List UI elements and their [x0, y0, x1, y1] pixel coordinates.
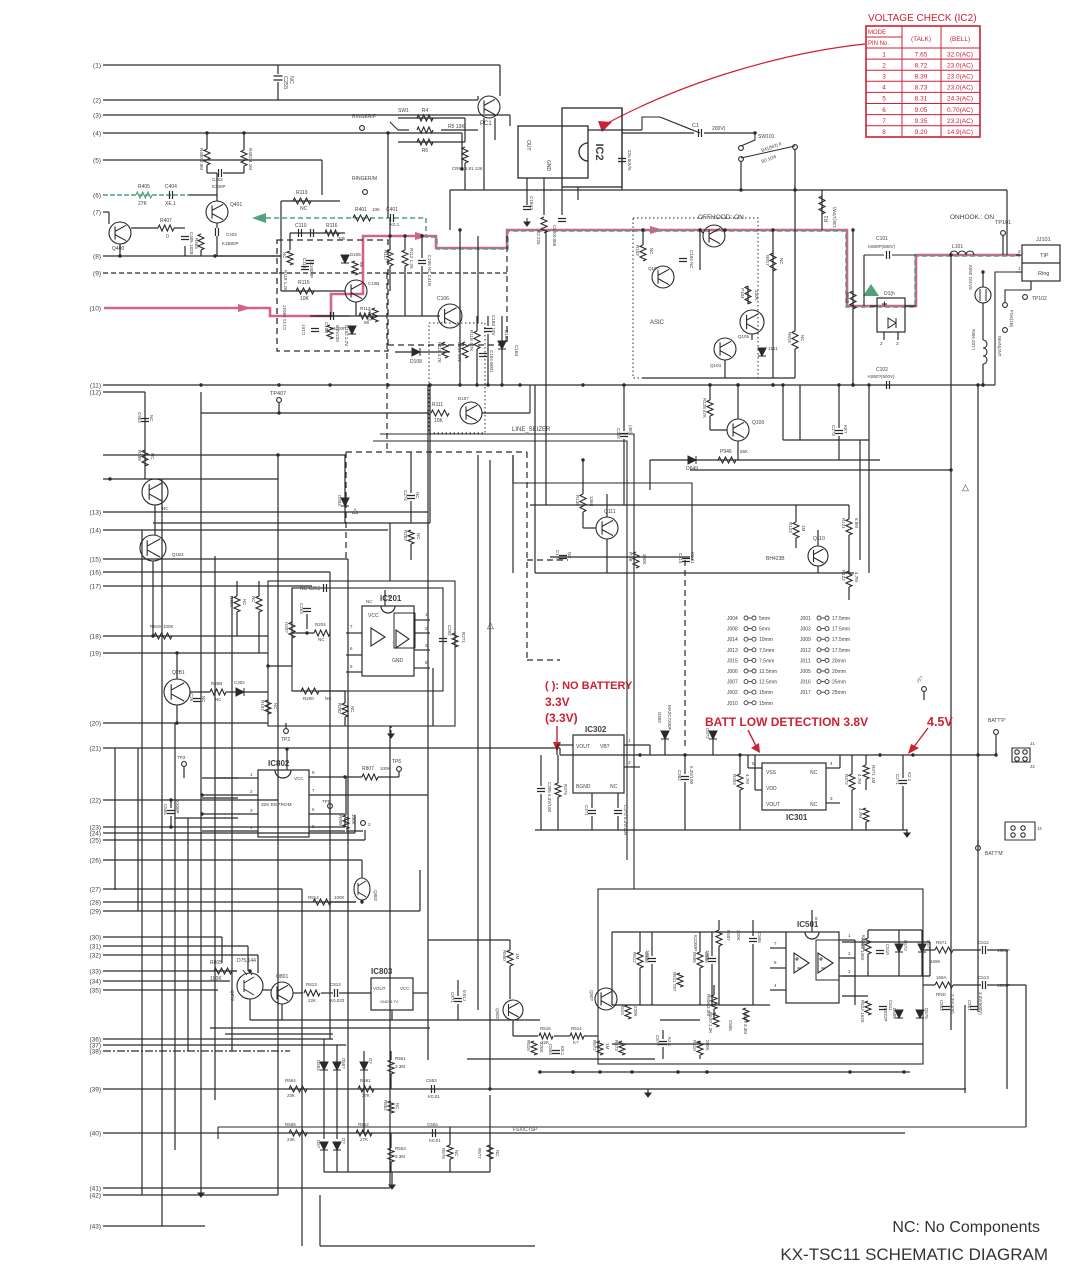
svg-text:200K: 200K — [705, 1040, 710, 1051]
wire r123 bot — [795, 538, 797, 548]
svg-text:R116: R116 — [326, 223, 338, 229]
wire ic501 p8 — [811, 910, 813, 932]
wire v428 — [427, 385, 429, 1060]
node j385 x983 — [981, 383, 984, 386]
wire ic802 p1 — [202, 777, 258, 779]
wire v1026 — [1025, 985, 1027, 1127]
wire c204 v — [410, 452, 412, 493]
svg-text:P104: P104 — [740, 288, 745, 299]
svg-text:(25): (25) — [89, 838, 101, 845]
node j978 755 — [976, 753, 979, 756]
transistor Q106 — [438, 304, 462, 328]
svg-text:R5?7: R5?7 — [477, 1148, 482, 1159]
svg-text:RINGER/M: RINGER/M — [352, 176, 377, 182]
svg-text:NC: NC — [416, 533, 421, 540]
wire IC2 out step — [642, 117, 660, 130]
wire c101 path2 — [892, 254, 916, 256]
transistor Q103 — [140, 535, 166, 561]
svg-text:C2?3: C2?3 — [831, 425, 836, 436]
svg-text:(43): (43) — [89, 1224, 101, 1231]
capacitor C110b — [311, 229, 314, 237]
wire ladder right v — [464, 118, 466, 142]
resistor R405 — [136, 192, 152, 198]
node j q802 — [360, 900, 363, 903]
wire v201 — [200, 413, 202, 1188]
resistor R206 — [234, 596, 240, 612]
svg-text:C559: C559 — [548, 1044, 553, 1055]
wire r135 top — [582, 460, 584, 494]
wire ic301 p3 — [826, 802, 840, 804]
wire pin1 drop — [499, 65, 501, 96]
wire ic201 p6 — [346, 654, 362, 656]
svg-text:RND: RND — [936, 992, 946, 997]
node j385 x201 — [199, 383, 202, 386]
svg-text:R407: R407 — [160, 218, 172, 224]
svg-text:(31): (31) — [89, 944, 101, 951]
resistor R814 — [313, 899, 331, 905]
node j385 x738 — [736, 383, 739, 386]
node IC802 box — [258, 770, 309, 837]
diode D104 — [498, 341, 506, 349]
wire bus y190 left drop — [449, 190, 451, 230]
svg-text:(6): (6) — [93, 193, 101, 200]
capacitor C110a — [299, 229, 302, 237]
svg-text:(29): (29) — [89, 909, 101, 916]
wire v142 — [141, 530, 143, 1195]
capacitor C301b — [588, 811, 596, 814]
wire q400 up — [108, 212, 110, 224]
node crimson arrow 2 — [415, 232, 429, 240]
svg-text:C404: C404 — [165, 184, 177, 190]
wire q201 line3 — [244, 691, 268, 693]
svg-text:R112 1.2K: R112 1.2K — [409, 248, 414, 269]
capacitor C505 — [708, 959, 716, 962]
wire jj101 pin1 — [1016, 254, 1022, 256]
node j r102 — [641, 228, 644, 231]
node legend J002 — [727, 690, 773, 696]
resistor R801a — [863, 808, 869, 822]
svg-text:NC: NC — [162, 506, 169, 511]
node TP6 — [397, 767, 402, 772]
svg-text:C512: C512 — [978, 940, 989, 945]
svg-text:(1): (1) — [93, 63, 101, 70]
svg-text:K2.1: K2.1 — [667, 1037, 672, 1047]
node j1072 c — [598, 1070, 601, 1073]
wire v624 — [623, 385, 625, 431]
capacitor C382 — [681, 777, 689, 780]
svg-text:D5?: D5? — [316, 1140, 321, 1149]
wire y479b — [103, 478, 162, 480]
wire q801 down — [281, 1004, 283, 1020]
node j 215 256 — [213, 254, 216, 257]
svg-text:Q111: Q111 — [604, 509, 616, 515]
wire c801 v — [457, 980, 459, 996]
wire y316 bus — [310, 315, 440, 317]
wire ic302 p1 — [624, 744, 650, 746]
svg-text:IC2: IC2 — [593, 143, 605, 160]
svg-text:100K: 100K — [334, 895, 345, 900]
wire ic302 drop — [556, 745, 558, 755]
svg-text:C501: C501 — [967, 1000, 972, 1011]
wire ic301 p5 — [748, 767, 762, 769]
svg-text:Q1B3: Q1B3 — [172, 552, 184, 557]
svg-text:TP2: TP2 — [281, 737, 290, 743]
node IC501 outer box — [598, 889, 923, 1064]
svg-text:330K: 330K — [754, 290, 759, 301]
wire v278 — [277, 455, 279, 1195]
wire r128 bot — [709, 416, 711, 430]
node j1072 g — [848, 1070, 851, 1073]
wire pin (4) — [103, 132, 462, 134]
svg-text:GND: GND — [545, 160, 551, 172]
svg-text:VSS: VSS — [766, 770, 777, 776]
svg-text:X330P: X330P — [175, 800, 180, 814]
svg-text:C1B4: C1B4 — [514, 345, 519, 357]
resistor R807 — [362, 774, 378, 780]
op-amp IC501 notch — [805, 932, 819, 939]
wire q111 base — [583, 527, 596, 529]
wire tp3 stub — [183, 767, 185, 778]
wire c201 v2 — [902, 786, 904, 830]
wire pin (17) — [103, 585, 312, 587]
resistor R501 — [935, 947, 953, 953]
wire x346 dash — [345, 452, 347, 560]
svg-text:C184 B001: C184 B001 — [489, 350, 494, 373]
wire v650 ic302 — [649, 745, 651, 755]
svg-text:R404: R404 — [194, 238, 199, 249]
wire ic802 p3 — [202, 813, 258, 815]
resistor R505 — [697, 952, 703, 968]
node legend J010 — [727, 701, 773, 707]
resistor R201 — [452, 633, 458, 647]
svg-text:J008: J008 — [727, 627, 738, 633]
wire d501 v2 — [921, 952, 923, 976]
wire pin (8) — [103, 255, 280, 257]
svg-text:(11): (11) — [90, 383, 101, 390]
wire q201 line2 — [226, 691, 236, 693]
wire ic802 p6 — [309, 813, 345, 815]
svg-text:K822P: K822P — [883, 1008, 888, 1022]
svg-text:R514: R514 — [571, 1026, 582, 1031]
svg-text:8.73: 8.73 — [915, 85, 928, 92]
svg-text:MODE: MODE — [868, 30, 886, 36]
resistor R121 — [846, 519, 852, 535]
wire pin (43) — [103, 1225, 205, 1227]
resistor R512 — [637, 952, 643, 968]
resistor R520 — [713, 1013, 719, 1027]
wire r507 v — [718, 920, 720, 930]
svg-text:D649: D649 — [686, 466, 698, 472]
svg-text:R561: R561 — [395, 1056, 406, 1061]
capacitor C1Y1c — [301, 267, 309, 270]
svg-text:(39): (39) — [89, 1087, 101, 1094]
capacitor C555 — [167, 811, 175, 814]
wire IC2 right out — [588, 129, 642, 131]
wire pin (35) — [103, 989, 218, 991]
wire r402 top — [243, 133, 245, 150]
svg-text:(30): (30) — [89, 935, 101, 942]
svg-text:VOUT: VOUT — [576, 744, 590, 750]
svg-text:330K: 330K — [642, 554, 647, 565]
svg-text:R807: R807 — [362, 766, 374, 772]
node legend J016 — [800, 680, 846, 686]
wire v839 — [838, 385, 840, 428]
op-amp IC2 inner box — [518, 126, 588, 178]
wire sw1 switch — [390, 122, 398, 130]
svg-text:4.7M: 4.7M — [858, 808, 863, 818]
svg-text:J014: J014 — [727, 637, 738, 643]
svg-text:J011: J011 — [800, 658, 811, 664]
svg-text:TP6: TP6 — [392, 759, 401, 765]
wire c555 v — [170, 800, 172, 808]
node j sw101 — [753, 131, 756, 134]
node j1072 f — [705, 1070, 708, 1073]
wire v965 — [964, 1005, 966, 1093]
svg-text:C3?1: C3?1 — [584, 805, 589, 816]
wire ic802 l2 — [202, 797, 238, 799]
wire q111 bot — [606, 539, 608, 573]
node legend J001 — [800, 616, 850, 622]
diode D502 — [895, 944, 903, 952]
node j385 x330 — [328, 383, 331, 386]
capacitor C953 — [141, 419, 149, 422]
ground — [389, 1181, 395, 1189]
wire pin (3) — [103, 114, 510, 116]
wire q111-r135 — [582, 512, 584, 528]
resistor R573 — [619, 1041, 625, 1055]
wire v390 — [389, 218, 391, 236]
op-amp IC2 outer box — [562, 108, 622, 187]
svg-text:R174: R174 — [367, 310, 372, 321]
svg-text:LINE_SEIZER: LINE_SEIZER — [512, 427, 551, 433]
capacitor C50a — [433, 1129, 436, 1137]
svg-text:J005: J005 — [800, 669, 811, 675]
wire bus y190 — [450, 189, 1007, 191]
svg-text:R4: R4 — [422, 108, 429, 114]
capacitor C812 — [335, 989, 338, 997]
svg-text:VOUT: VOUT — [766, 802, 780, 808]
ground — [388, 730, 394, 738]
svg-text:NC: NC — [395, 1103, 400, 1110]
wire pin (1) — [103, 64, 500, 66]
wire tp2 stub — [285, 723, 287, 728]
wire q802 up — [361, 860, 363, 878]
capacitor C512 — [983, 946, 986, 954]
svg-text:10K: 10K — [300, 296, 310, 302]
svg-text:D75,144: D75,144 — [237, 958, 256, 964]
node legend J008 — [727, 627, 770, 633]
svg-text:R3?9: R3?9 — [563, 784, 568, 795]
node j r400 y133 — [205, 131, 208, 134]
wire tp6 stub — [398, 772, 400, 777]
transistor Q110 — [808, 546, 828, 566]
resistor R303 — [863, 765, 869, 779]
svg-text:RINGER/F: RINGER/F — [352, 114, 376, 120]
svg-text:12.5mm: 12.5mm — [759, 680, 777, 686]
wire d303 v — [664, 739, 666, 755]
wire v391d — [390, 1162, 392, 1172]
wire ic501 inner h1 — [612, 931, 786, 933]
svg-text:6: 6 — [882, 107, 886, 114]
svg-text:(18): (18) — [89, 634, 101, 641]
wire sa101 top — [982, 272, 984, 287]
svg-text:TIP: TIP — [1040, 253, 1049, 259]
svg-text:(13): (13) — [89, 510, 101, 517]
svg-text:L102 500u: L102 500u — [971, 328, 976, 350]
svg-text:25mm: 25mm — [832, 680, 846, 686]
transistor Q802 — [354, 878, 370, 900]
wire sw101 a — [741, 133, 755, 146]
wire ic201 left v2 — [291, 638, 293, 666]
node TP407 — [277, 398, 282, 403]
node j 462 169 — [460, 167, 463, 170]
diode D302 — [709, 731, 717, 739]
capacitor C105 — [418, 261, 426, 264]
wire nest v513 — [512, 455, 514, 483]
svg-text:K330P: K330P — [212, 184, 226, 189]
svg-text:(14): (14) — [89, 528, 101, 535]
svg-text:6.3V/100: 6.3V/100 — [689, 766, 694, 785]
svg-text:C505: C505 — [704, 952, 709, 963]
wire v248 — [247, 946, 249, 971]
node j q201 723 — [175, 721, 178, 724]
node legend J004 — [727, 616, 770, 622]
wire v337c — [336, 1150, 338, 1172]
node TP102 — [1023, 295, 1028, 300]
wire ic803 right — [413, 992, 428, 994]
svg-text:IC302: IC302 — [585, 725, 607, 734]
resistor R122 — [846, 571, 852, 587]
wire v490 — [489, 460, 491, 1089]
wire r117 bot — [389, 266, 391, 291]
svg-text:XE.1: XE.1 — [165, 201, 176, 207]
svg-text:(BELL): (BELL) — [950, 36, 970, 43]
svg-text:△: △ — [352, 506, 359, 515]
node j tp407 — [277, 411, 280, 414]
svg-text:C382: C382 — [677, 770, 682, 781]
wire r814 wire — [331, 901, 356, 903]
diode D552 — [320, 1062, 328, 1070]
wire r807 wire — [345, 776, 362, 778]
wire r502 v — [867, 930, 869, 938]
wire r121 bot — [848, 535, 850, 573]
svg-text:C105 NC.C41B: C105 NC.C41B — [427, 255, 432, 286]
resistor R110 — [474, 331, 480, 349]
svg-text:R818: R818 — [787, 332, 792, 343]
wire y996 link — [842, 995, 868, 997]
svg-text:8.39: 8.39 — [915, 74, 928, 81]
wire r206 bot — [236, 612, 238, 636]
wire c1 line — [622, 132, 694, 134]
wire q201 down — [176, 705, 178, 723]
wire y1034 — [225, 1033, 333, 1035]
wire v258 — [257, 955, 259, 973]
wire r303 v — [865, 755, 867, 765]
wire R505 bot — [699, 968, 701, 1005]
capacitor C3 — [523, 207, 531, 210]
diode D302a — [236, 688, 244, 696]
wire gnd392 — [391, 1172, 393, 1185]
svg-text:IC501: IC501 — [797, 920, 819, 929]
node j 869 385 — [867, 383, 870, 386]
wire v364b — [363, 1070, 365, 1133]
svg-text:C302: C302 — [234, 680, 245, 685]
node j p3 — [200, 812, 203, 815]
svg-text:NC: NC — [567, 552, 572, 559]
wire v478b — [477, 316, 479, 323]
wire v337 — [336, 1045, 338, 1062]
svg-text:R2 226: R2 226 — [536, 230, 541, 245]
transistor Q105a — [703, 225, 725, 247]
transistor Q803 — [237, 973, 263, 999]
resistor R561b — [358, 1086, 374, 1092]
svg-text:32K EEPROM: 32K EEPROM — [261, 802, 292, 808]
svg-text:R510: R510 — [692, 1040, 697, 1051]
resistor R104 — [745, 286, 751, 304]
svg-text:(35): (35) — [89, 988, 101, 995]
wire r309 v2 — [557, 797, 559, 830]
wire r502 v2 — [867, 954, 869, 976]
svg-text:(3.3V): (3.3V) — [545, 711, 578, 725]
wire c1 to sw101 — [704, 132, 755, 134]
wire c557 v2 — [662, 1047, 664, 1059]
wire d302 v — [712, 739, 714, 755]
wire r510 v — [699, 1041, 701, 1044]
wire tp9 stub — [923, 692, 925, 700]
svg-text:GND: GND — [392, 658, 404, 664]
node j385 x839 — [837, 383, 840, 386]
svg-text:R564: R564 — [285, 1078, 296, 1083]
node crimson arrow 3 — [650, 226, 664, 234]
svg-text:IC803: IC803 — [371, 967, 393, 976]
wire r400 bot — [206, 165, 208, 173]
wire d101 left — [870, 305, 877, 307]
wire c382 v2 — [684, 782, 686, 830]
resistor R567 — [487, 1145, 493, 1159]
node j385 x477 — [475, 383, 478, 386]
wire C505 bot — [711, 964, 713, 1005]
resistor R566 — [447, 1145, 453, 1159]
svg-text:1M: 1M — [605, 1043, 610, 1050]
wire y557 — [550, 556, 690, 558]
svg-text:Ring: Ring — [1038, 271, 1049, 277]
wire q111 up — [606, 494, 608, 517]
svg-text:3.3V: 3.3V — [545, 695, 570, 709]
svg-text:23.0(AC): 23.0(AC) — [947, 74, 973, 81]
wire v324c — [323, 1150, 325, 1172]
wire v502b — [501, 349, 503, 385]
svg-text:(10): (10) — [89, 306, 101, 313]
svg-text:(15): (15) — [89, 557, 101, 564]
wire c402 l — [207, 172, 217, 174]
wire r104 v — [747, 286, 749, 304]
node j r128 — [708, 383, 711, 386]
node table frame — [866, 26, 980, 137]
wire y460 left v — [649, 460, 651, 490]
svg-text:H20?: H20? — [284, 622, 289, 633]
wire y942 link — [842, 941, 930, 943]
wire c801 v2 — [457, 1004, 459, 1020]
resistor R502 — [865, 938, 871, 954]
svg-text:R115: R115 — [298, 280, 310, 286]
svg-text:R505: R505 — [692, 952, 697, 963]
svg-text:10mm: 10mm — [759, 637, 773, 643]
resistor R572 — [597, 1041, 603, 1055]
node green triangle — [863, 284, 879, 296]
svg-text:(21): (21) — [89, 746, 101, 753]
svg-text:TP407: TP407 — [270, 391, 286, 397]
wire c305 v2 — [540, 794, 542, 830]
